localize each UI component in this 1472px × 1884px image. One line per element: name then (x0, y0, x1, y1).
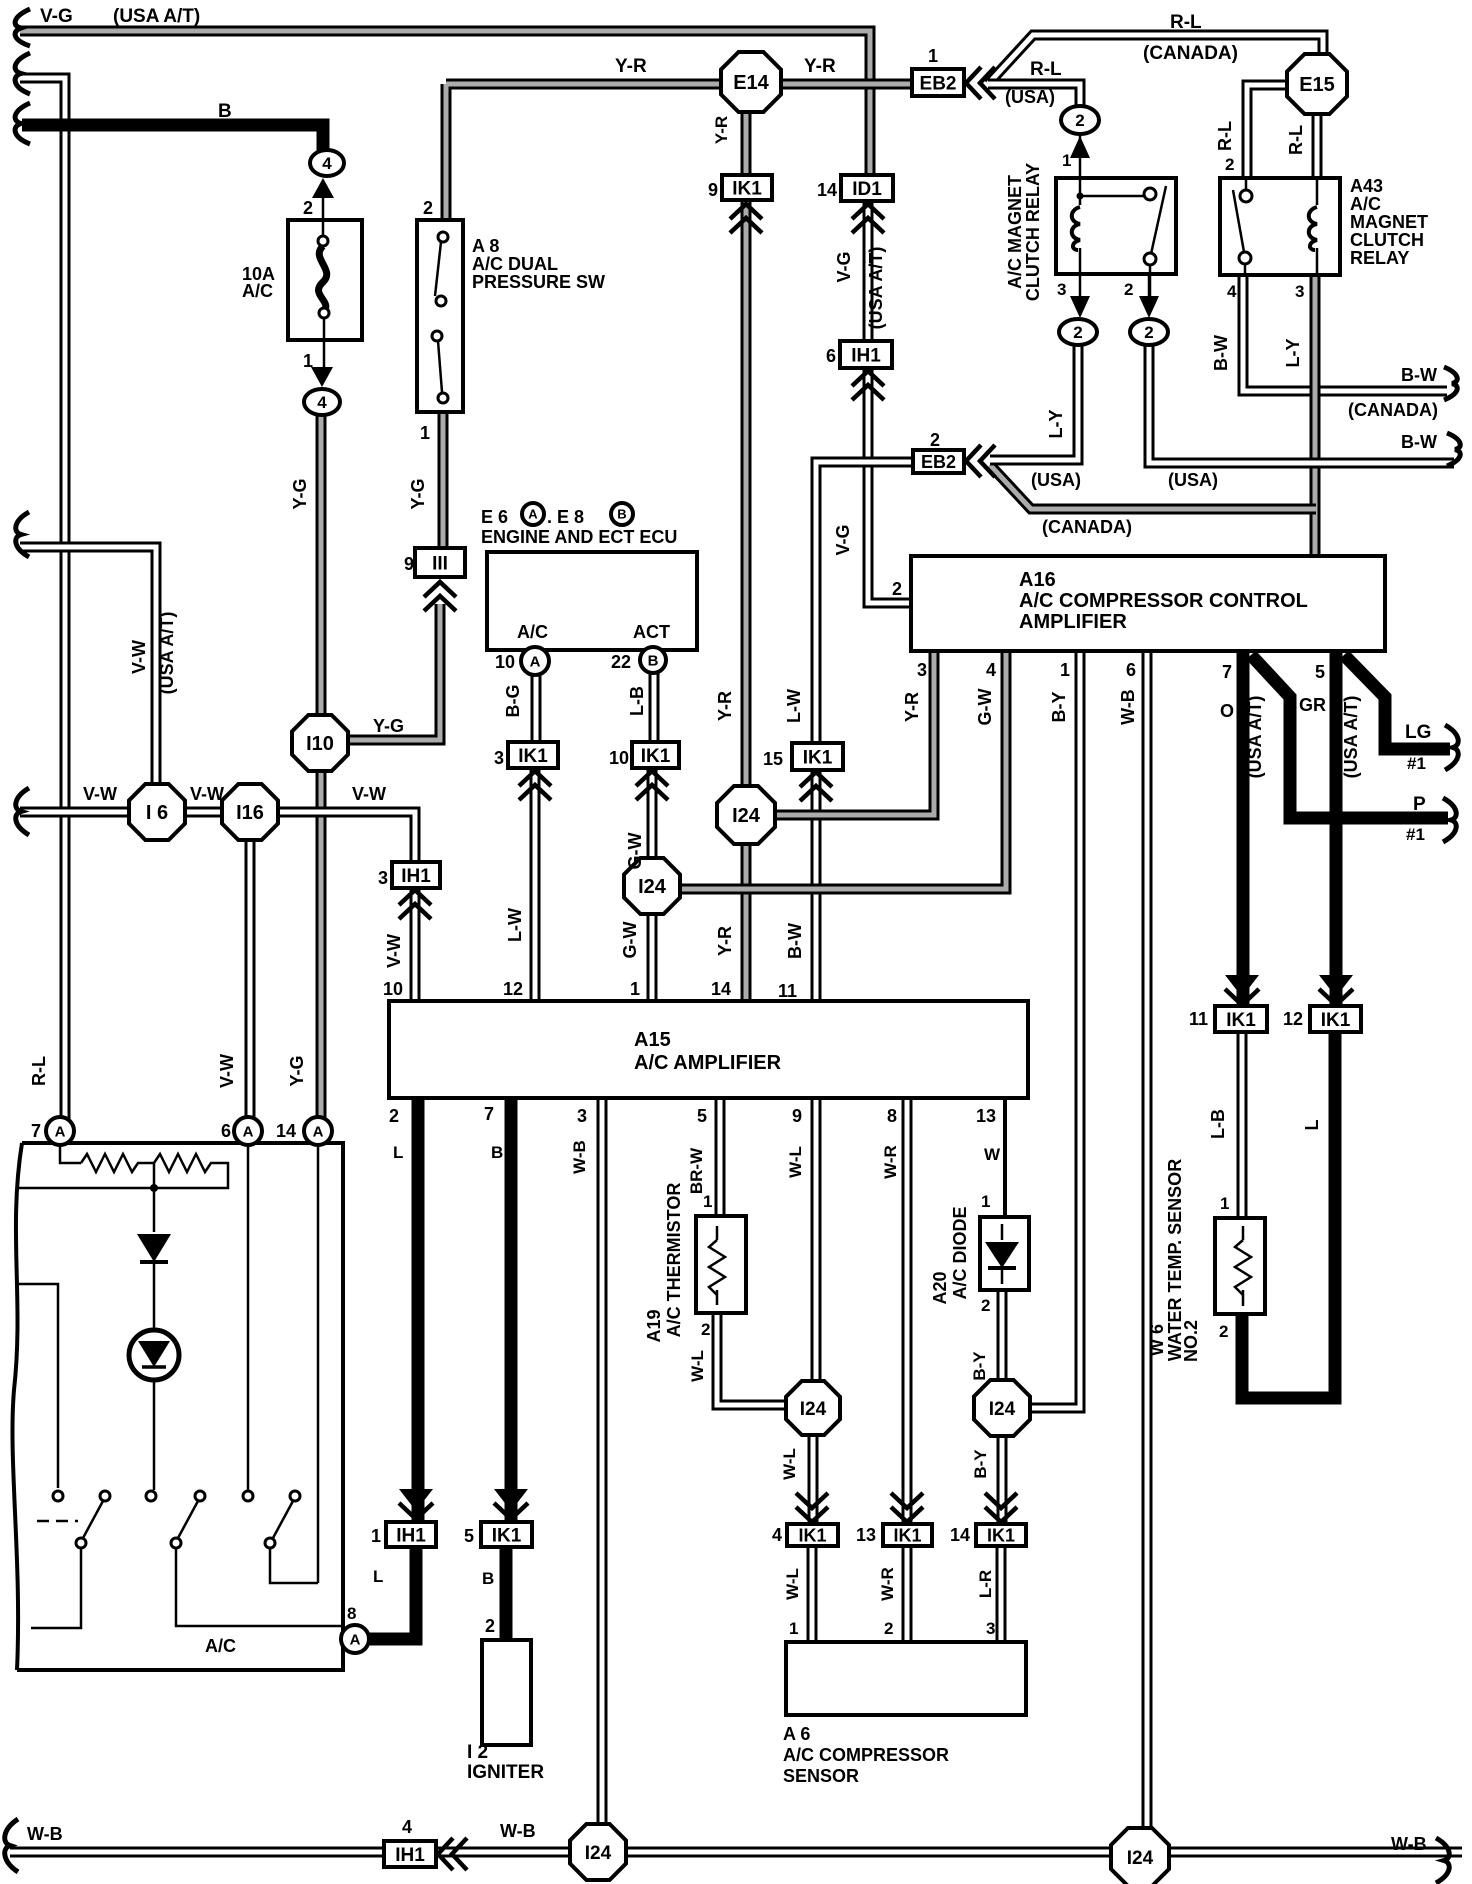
svg-text:W-B: W-B (570, 1140, 589, 1174)
svg-text:LG: LG (1405, 722, 1431, 743)
svg-text:W-L: W-L (783, 1568, 802, 1600)
svg-text:Y-R: Y-R (902, 692, 922, 722)
svg-text:2: 2 (485, 1616, 495, 1636)
svg-text:IK1: IK1 (798, 1525, 826, 1545)
svg-text:CLUTCH RELAY: CLUTCH RELAY (1023, 163, 1043, 301)
svg-text:V-G: V-G (833, 524, 853, 555)
svg-text:Y-R: Y-R (615, 56, 647, 77)
svg-text:4: 4 (317, 393, 327, 412)
svg-text:IH1: IH1 (851, 345, 881, 366)
svg-text:1: 1 (789, 1619, 798, 1638)
svg-text:A/C: A/C (1350, 194, 1381, 214)
svg-text:IK1: IK1 (987, 1525, 1015, 1545)
svg-text:V-G: V-G (834, 251, 854, 282)
svg-text:(USA): (USA) (1168, 470, 1218, 490)
svg-text:G-W: G-W (620, 921, 640, 958)
svg-text:Y-R: Y-R (715, 926, 735, 956)
svg-text:22: 22 (611, 652, 631, 672)
svg-text:W 6: W 6 (1147, 1324, 1167, 1356)
svg-text:E15: E15 (1299, 74, 1335, 96)
svg-text:R-L: R-L (1215, 121, 1235, 151)
svg-text:B-Y: B-Y (971, 1449, 990, 1479)
svg-text:A/C AMPLIFIER: A/C AMPLIFIER (634, 1052, 782, 1074)
svg-text:W-L: W-L (780, 1448, 799, 1480)
svg-text:11: 11 (1189, 1009, 1208, 1029)
svg-text:1: 1 (371, 1526, 381, 1546)
svg-text:12: 12 (503, 979, 523, 999)
svg-text:4: 4 (1227, 282, 1237, 301)
svg-text:(CANADA): (CANADA) (1143, 43, 1238, 64)
svg-text:A16: A16 (1019, 569, 1056, 591)
svg-text:1: 1 (630, 979, 640, 999)
svg-text:13: 13 (976, 1106, 996, 1126)
svg-text:V-G: V-G (40, 6, 73, 27)
svg-text:A20: A20 (930, 1271, 950, 1304)
svg-text:V-W: V-W (352, 784, 386, 804)
svg-text:R-L: R-L (1286, 125, 1306, 155)
svg-text:A/C DUAL: A/C DUAL (472, 254, 558, 274)
svg-text:A: A (243, 1123, 254, 1140)
svg-text:6: 6 (221, 1121, 231, 1141)
svg-text:6: 6 (826, 346, 836, 366)
svg-text:A19: A19 (644, 1309, 664, 1342)
svg-text:2: 2 (892, 579, 902, 599)
svg-text:R-L: R-L (1170, 12, 1202, 33)
svg-text:4: 4 (986, 660, 996, 680)
svg-text:3: 3 (494, 748, 504, 768)
svg-text:L-W: L-W (784, 689, 804, 723)
svg-text:1: 1 (1060, 660, 1070, 680)
svg-text:W-B: W-B (1391, 1834, 1427, 1854)
svg-text:2: 2 (1075, 111, 1084, 130)
svg-text:A/C: A/C (205, 1636, 236, 1656)
svg-text:AMPLIFIER: AMPLIFIER (1019, 611, 1127, 633)
svg-text:W-L: W-L (786, 1146, 805, 1178)
svg-text:IK1: IK1 (803, 747, 833, 768)
svg-text:14: 14 (817, 180, 837, 200)
svg-text:CLUTCH: CLUTCH (1350, 230, 1424, 250)
svg-text:L: L (393, 1143, 403, 1162)
svg-text:1: 1 (303, 351, 313, 371)
svg-text:(USA A/T): (USA A/T) (866, 247, 886, 330)
svg-text:B-Y: B-Y (970, 1351, 989, 1381)
svg-text:(USA): (USA) (1031, 470, 1081, 490)
svg-text:(USA): (USA) (1005, 87, 1055, 107)
svg-text:EB2: EB2 (920, 73, 957, 94)
svg-text:ACT: ACT (633, 622, 670, 642)
svg-text:A 6: A 6 (783, 1724, 810, 1744)
svg-text:IH1: IH1 (395, 1845, 425, 1866)
svg-text:P: P (1413, 794, 1426, 815)
svg-text:IK1: IK1 (1321, 1010, 1351, 1031)
svg-text:V-W: V-W (83, 784, 117, 804)
svg-text:B-Y: B-Y (1049, 692, 1069, 723)
svg-text:2: 2 (1225, 155, 1234, 174)
svg-text:B-W: B-W (1211, 335, 1231, 371)
svg-text:A/C: A/C (517, 622, 548, 642)
svg-text:5: 5 (464, 1526, 474, 1546)
svg-text:2: 2 (981, 1296, 990, 1315)
svg-text:IK1: IK1 (732, 178, 762, 199)
svg-text:L-B: L-B (627, 686, 647, 716)
svg-text:E14: E14 (733, 72, 769, 94)
svg-text:Y-R: Y-R (804, 56, 836, 77)
svg-text:3: 3 (917, 660, 927, 680)
svg-text:L-R: L-R (976, 1570, 995, 1598)
svg-text:I10: I10 (306, 733, 334, 755)
svg-text:4: 4 (772, 1525, 782, 1545)
svg-text:IH1: IH1 (396, 1525, 426, 1546)
svg-text:I24: I24 (732, 805, 761, 827)
svg-text:(USA A/T): (USA A/T) (1341, 696, 1361, 779)
svg-text:A 8: A 8 (472, 236, 499, 256)
svg-text:15: 15 (763, 749, 783, 769)
svg-text:A/C COMPRESSOR: A/C COMPRESSOR (783, 1745, 949, 1765)
svg-text:B: B (491, 1143, 503, 1162)
svg-text:R-L: R-L (29, 1056, 49, 1086)
svg-text:2: 2 (1219, 1322, 1228, 1341)
svg-text:GR: GR (1299, 695, 1326, 715)
svg-text:8: 8 (347, 1604, 356, 1623)
svg-text:5: 5 (1315, 662, 1325, 682)
svg-text:IH1: IH1 (401, 866, 431, 887)
svg-text:W-B: W-B (27, 1824, 63, 1844)
svg-text:1: 1 (928, 46, 938, 66)
svg-text:IK1: IK1 (641, 746, 671, 767)
svg-text:W-R: W-R (881, 1145, 900, 1179)
svg-text:6: 6 (1126, 660, 1136, 680)
svg-text:W-R: W-R (878, 1567, 897, 1601)
svg-text:. E 8: . E 8 (547, 507, 584, 527)
svg-text:I24: I24 (638, 876, 667, 898)
svg-text:NO.2: NO.2 (1181, 1320, 1201, 1362)
svg-text:B: B (648, 652, 659, 669)
svg-text:A/C: A/C (242, 281, 273, 301)
svg-text:B: B (617, 507, 626, 522)
svg-text:#1: #1 (1407, 754, 1426, 773)
svg-text:Y-G: Y-G (408, 478, 428, 509)
svg-text:R-L: R-L (1030, 59, 1062, 80)
svg-text:W: W (984, 1145, 1001, 1164)
svg-text:I24: I24 (1127, 1848, 1154, 1869)
svg-text:#1: #1 (1406, 825, 1425, 844)
svg-text:4: 4 (402, 1817, 412, 1837)
svg-text:A: A (528, 507, 538, 522)
svg-text:I 6: I 6 (146, 802, 168, 824)
svg-text:7: 7 (31, 1121, 41, 1141)
svg-text:2: 2 (303, 198, 313, 218)
svg-text:2: 2 (701, 1320, 710, 1339)
svg-text:I 2: I 2 (467, 1742, 488, 1763)
svg-text:IGNITER: IGNITER (467, 1762, 544, 1783)
svg-text:I24: I24 (585, 1843, 612, 1864)
svg-text:IK1: IK1 (492, 1525, 522, 1546)
svg-text:A: A (530, 653, 541, 670)
svg-text:W-L: W-L (688, 1350, 707, 1382)
svg-text:BR-W: BR-W (687, 1147, 706, 1194)
svg-text:IK1: IK1 (1226, 1010, 1256, 1031)
svg-text:I24: I24 (989, 1399, 1016, 1420)
svg-text:3: 3 (986, 1619, 995, 1638)
svg-text:Y-R: Y-R (715, 691, 735, 721)
svg-text:(USA A/T): (USA A/T) (113, 6, 200, 27)
svg-text:3: 3 (1295, 282, 1304, 301)
svg-text:(CANADA): (CANADA) (1042, 517, 1132, 537)
svg-text:L-B: L-B (1208, 1109, 1228, 1139)
svg-text:14: 14 (950, 1525, 970, 1545)
svg-text:Y-G: Y-G (290, 478, 310, 509)
svg-text:L-W: L-W (505, 908, 525, 942)
svg-text:A: A (313, 1123, 324, 1140)
svg-text:12: 12 (1283, 1009, 1303, 1029)
svg-text:8: 8 (887, 1106, 897, 1126)
svg-text:9: 9 (708, 180, 718, 200)
svg-text:5: 5 (697, 1106, 707, 1126)
svg-text:10: 10 (495, 652, 515, 672)
svg-text:Y-G: Y-G (287, 1055, 307, 1086)
svg-text:Y-R: Y-R (712, 116, 731, 144)
svg-text:2: 2 (884, 1619, 893, 1638)
svg-text:III: III (432, 553, 448, 574)
svg-text:A: A (350, 1631, 361, 1648)
svg-text:A/C COMPRESSOR CONTROL: A/C COMPRESSOR CONTROL (1019, 590, 1308, 612)
svg-text:1: 1 (420, 423, 430, 443)
svg-text:I16: I16 (236, 802, 264, 824)
svg-text:(USA A/T): (USA A/T) (1245, 696, 1265, 779)
svg-text:A/C DIODE: A/C DIODE (950, 1206, 970, 1299)
svg-text:1: 1 (981, 1192, 990, 1211)
svg-text:2: 2 (1073, 323, 1082, 342)
svg-text:2: 2 (930, 430, 940, 450)
svg-text:B-G: B-G (503, 685, 523, 718)
svg-text:IK1: IK1 (893, 1525, 921, 1545)
svg-text:PRESSURE SW: PRESSURE SW (472, 272, 605, 292)
svg-text:E 6: E 6 (481, 507, 508, 527)
svg-text:B-W: B-W (1401, 432, 1437, 452)
svg-text:2: 2 (389, 1106, 399, 1126)
svg-text:9: 9 (792, 1106, 802, 1126)
svg-text:I24: I24 (800, 1399, 827, 1420)
svg-text:V-W: V-W (190, 784, 224, 804)
svg-text:(CANADA): (CANADA) (1348, 400, 1438, 420)
svg-text:2: 2 (1124, 280, 1133, 299)
svg-text:G-W: G-W (975, 688, 995, 725)
svg-text:9: 9 (404, 554, 414, 574)
svg-text:14: 14 (711, 979, 731, 999)
svg-text:1: 1 (1062, 151, 1071, 170)
svg-text:A: A (55, 1123, 66, 1140)
svg-text:B-W: B-W (1401, 365, 1437, 385)
svg-text:10: 10 (383, 979, 403, 999)
svg-text:B: B (218, 101, 232, 122)
svg-text:3: 3 (577, 1106, 587, 1126)
svg-text:G-W: G-W (625, 832, 645, 869)
svg-text:4: 4 (322, 154, 332, 173)
svg-text:ID1: ID1 (852, 179, 882, 200)
svg-text:3: 3 (1057, 280, 1066, 299)
svg-text:A43: A43 (1350, 176, 1383, 196)
svg-text:L-Y: L-Y (1283, 339, 1303, 368)
svg-text:B-W: B-W (785, 923, 805, 959)
svg-text:14: 14 (276, 1121, 296, 1141)
svg-text:7: 7 (484, 1104, 494, 1124)
svg-text:W-B: W-B (500, 1821, 536, 1841)
svg-text:W-B: W-B (1118, 689, 1138, 725)
svg-text:B: B (482, 1569, 494, 1588)
svg-text:7: 7 (1222, 662, 1232, 682)
svg-text:A/C MAGNET: A/C MAGNET (1005, 175, 1025, 289)
svg-text:A/C THERMISTOR: A/C THERMISTOR (664, 1183, 684, 1338)
svg-text:MAGNET: MAGNET (1350, 212, 1428, 232)
svg-text:11: 11 (778, 981, 797, 1001)
svg-text:L: L (1302, 1120, 1322, 1131)
svg-text:ENGINE AND ECT ECU: ENGINE AND ECT ECU (481, 527, 677, 547)
svg-text:10: 10 (609, 748, 629, 768)
svg-text:L-Y: L-Y (1046, 410, 1066, 439)
svg-text:RELAY: RELAY (1350, 248, 1409, 268)
svg-text:IK1: IK1 (518, 746, 548, 767)
svg-text:L: L (373, 1567, 383, 1586)
svg-text:2: 2 (423, 198, 433, 218)
svg-text:O: O (1220, 701, 1234, 721)
svg-text:V-W: V-W (217, 1054, 237, 1088)
svg-text:(USA A/T): (USA A/T) (157, 612, 177, 695)
svg-text:V-W: V-W (129, 640, 149, 674)
svg-text:Y-G: Y-G (373, 716, 404, 736)
svg-text:1: 1 (1220, 1194, 1229, 1213)
svg-text:13: 13 (856, 1525, 876, 1545)
svg-text:2: 2 (1144, 323, 1153, 342)
svg-text:A15: A15 (634, 1029, 671, 1051)
svg-text:SENSOR: SENSOR (783, 1766, 859, 1786)
svg-text:3: 3 (378, 868, 388, 888)
svg-text:V-W: V-W (384, 934, 404, 968)
svg-text:EB2: EB2 (921, 452, 956, 472)
